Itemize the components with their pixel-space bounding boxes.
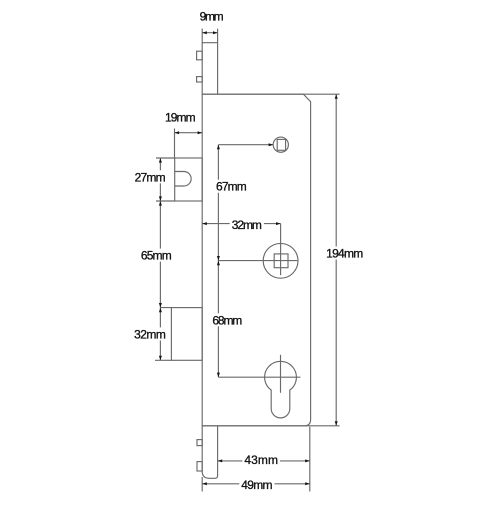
svg-text:65mm: 65mm bbox=[141, 249, 172, 263]
svg-text:27mm: 27mm bbox=[135, 170, 166, 184]
svg-text:32mm: 32mm bbox=[232, 218, 262, 232]
svg-text:67mm: 67mm bbox=[216, 180, 247, 194]
svg-text:19mm: 19mm bbox=[165, 110, 196, 124]
svg-text:32mm: 32mm bbox=[134, 327, 166, 341]
svg-text:9mm: 9mm bbox=[200, 9, 224, 23]
svg-text:43mm: 43mm bbox=[244, 453, 278, 467]
svg-text:68mm: 68mm bbox=[212, 313, 242, 327]
svg-text:49mm: 49mm bbox=[241, 478, 272, 492]
svg-text:194mm: 194mm bbox=[326, 247, 363, 261]
